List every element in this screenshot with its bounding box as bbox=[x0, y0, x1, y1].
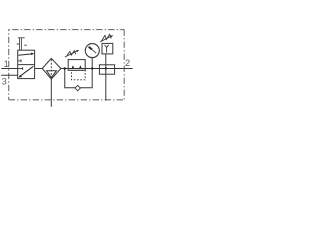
filter F1 drain line bbox=[50, 79, 52, 107]
valve V1 blocked port (top square) bbox=[18, 59, 21, 62]
gauge G1 stem bbox=[91, 58, 93, 69]
regulator R1 vent path bbox=[65, 69, 92, 88]
relief valve V2 Y symbol bbox=[105, 45, 109, 53]
svg-text:3: 3 bbox=[2, 76, 7, 86]
node junction gauge bbox=[91, 67, 93, 69]
distributor block B1 bbox=[99, 65, 114, 74]
wire valve to filter bbox=[35, 68, 43, 70]
valve V1 handle bbox=[17, 38, 27, 50]
valve V1 open-path arrow bbox=[18, 53, 34, 56]
gauge G1 dial bbox=[85, 44, 99, 58]
enclosure dash-dot frame bbox=[9, 30, 125, 100]
regulator R1 box bbox=[68, 60, 85, 71]
wire relief valve to flow bbox=[105, 54, 107, 69]
valve V1 exhaust diagonal bbox=[18, 66, 33, 77]
gauge G1 needle bbox=[92, 50, 96, 54]
filter F1 diamond bbox=[42, 58, 61, 79]
svg-text:1: 1 bbox=[4, 59, 9, 69]
wire filter to regulator bbox=[61, 68, 133, 70]
svg-text:2: 2 bbox=[125, 58, 130, 68]
node junction relief bbox=[105, 67, 107, 69]
node junction left bbox=[64, 67, 66, 69]
regulator R1 throttle arrows bbox=[72, 65, 75, 68]
relief valve V2 box bbox=[102, 43, 113, 54]
regulator R1 vent diamond bbox=[75, 85, 80, 90]
valve V1 body bbox=[18, 50, 35, 78]
filter F1 element dashed bbox=[50, 59, 52, 78]
regulator R1 adjustable spring bbox=[65, 51, 78, 57]
wire relief vent down bbox=[105, 69, 107, 101]
valve V1 blocked port 1 (bottom square) bbox=[18, 67, 23, 70]
regulator R1 pilot dashed box bbox=[72, 70, 86, 80]
wire port 3 line bbox=[1, 74, 18, 76]
wire port 1 line bbox=[1, 68, 18, 70]
relief valve V2 adjustable spring bbox=[100, 34, 111, 42]
filter F1 separator triangle bbox=[47, 71, 57, 78]
